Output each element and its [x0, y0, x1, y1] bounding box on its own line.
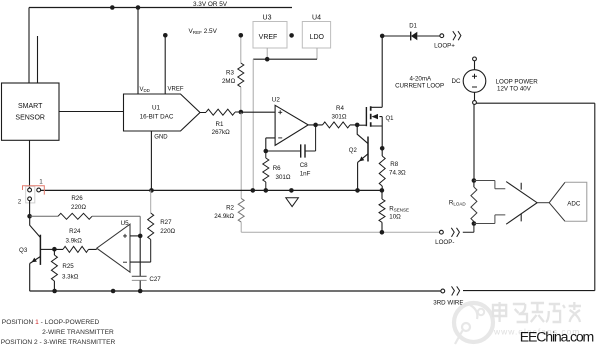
wire ground bus riser to analog rail — [252, 59, 254, 190]
node U5 supply dot on bottom rail — [111, 289, 116, 294]
svg-text:3RD WIRE: 3RD WIRE — [433, 300, 463, 307]
svg-text:POSITION 2 - 3-WIRE TRANSMITTE: POSITION 2 - 3-WIRE TRANSMITTER — [1, 339, 116, 346]
svg-text:POSITION 1 - LOOP-POWERED: POSITION 1 - LOOP-POWERED — [2, 319, 100, 326]
node VREF net dot at U1 — [163, 33, 168, 38]
svg-text:U3: U3 — [263, 15, 272, 22]
watermark logo circle — [454, 303, 493, 344]
svg-text:16-BIT DAC: 16-BIT DAC — [140, 114, 174, 121]
node rail dot Q2 emitter — [355, 188, 360, 193]
svg-text:Q1: Q1 — [386, 116, 395, 122]
wire transmitter bottom rail — [30, 290, 441, 292]
wire loop bottom right — [463, 290, 595, 292]
wire sensor bottom to jumper — [29, 140, 31, 188]
svg-text:301Ω: 301Ω — [332, 113, 347, 120]
transistor Q3 — [30, 216, 41, 237]
svg-text:3.3kΩ: 3.3kΩ — [62, 274, 79, 281]
op-amp U2 — [275, 105, 308, 145]
pin VREF of U1 — [164, 35, 166, 94]
node rail dot U3U4 gnd — [251, 188, 256, 193]
resistor R27 220 — [150, 190, 152, 213]
svg-text:SENSOR: SENSOR — [15, 115, 45, 122]
svg-text:C27: C27 — [149, 276, 161, 283]
resistor R2 24.9k — [240, 112, 242, 198]
node feedback junction — [264, 149, 269, 154]
svg-text:220Ω: 220Ω — [71, 204, 86, 211]
diode D1 — [382, 35, 410, 37]
svg-text:GND: GND — [154, 135, 168, 141]
node VDD junction on top rail — [110, 5, 115, 10]
svg-text:10Ω: 10Ω — [389, 213, 401, 220]
connector LOOP+ break — [440, 34, 444, 38]
node rail dot U1 gnd — [149, 188, 154, 193]
node rail dot R6 — [264, 188, 269, 193]
svg-text:3.3V OR 5V: 3.3V OR 5V — [193, 1, 228, 8]
svg-text:301Ω: 301Ω — [276, 174, 291, 181]
node U2 output — [313, 123, 318, 128]
connector 3RD WIRE break — [441, 289, 445, 293]
svg-text:R24: R24 — [69, 228, 81, 235]
capacitor C8 1nF — [266, 150, 301, 152]
source DC loop power supply — [473, 57, 477, 61]
node gate drive junction — [355, 123, 360, 128]
svg-text:ADC: ADC — [567, 200, 581, 207]
svg-text:R26: R26 — [71, 195, 83, 202]
node Q3 base junction — [52, 247, 57, 252]
node Q1 drain top dot — [380, 34, 385, 39]
svg-text:2: 2 — [18, 199, 22, 206]
svg-text:CURRENT LOOP: CURRENT LOOP — [395, 83, 444, 90]
resistor R4 301 — [308, 124, 357, 126]
svg-text:VREF: VREF — [259, 34, 278, 41]
node U5 plus input junction — [138, 234, 143, 239]
wire U2 minus input feedback — [266, 138, 275, 151]
resistor R8 74.3 — [381, 148, 383, 156]
svg-text:R8: R8 — [390, 161, 398, 168]
resistor R26 220 — [30, 215, 58, 217]
svg-text:Q3: Q3 — [19, 247, 28, 254]
wire U2 plus input — [241, 111, 275, 113]
wire loop top from DC to right edge — [477, 102, 595, 104]
connector LOOP- break — [440, 230, 444, 234]
op-amp U5 — [97, 224, 130, 272]
net 3.3V-or-5V top rail — [29, 7, 292, 9]
svg-text:1nF: 1nF — [300, 171, 311, 178]
node summing junction A — [239, 110, 244, 115]
resistor R3 2M — [240, 35, 242, 63]
resistor R1 267k — [200, 111, 241, 114]
svg-text:1: 1 — [39, 179, 43, 186]
node Rload top junction — [472, 178, 477, 183]
ground symbol — [286, 198, 299, 207]
block U3 VREF — [253, 22, 287, 49]
pin VDD of U1 — [137, 8, 139, 95]
resistor R6 301 — [265, 151, 267, 158]
svg-text:R2: R2 — [226, 204, 234, 211]
svg-text:2-WIRE TRANSMITTER: 2-WIRE TRANSMITTER — [42, 329, 114, 336]
node dot between U3 and U4 — [289, 33, 294, 38]
svg-text:R4: R4 — [336, 105, 344, 112]
node Rload bottom junction — [472, 221, 477, 226]
svg-text:U2: U2 — [272, 97, 281, 104]
wire amp output to ADC — [537, 202, 549, 204]
transistor Q2 NPN — [357, 125, 368, 144]
svg-text:Q2: Q2 — [349, 148, 358, 154]
wire U3 U4 ground bus — [266, 48, 268, 59]
svg-text:D1: D1 — [409, 23, 417, 29]
svg-text:R6: R6 — [273, 165, 281, 172]
wire sensor output to DAC — [59, 111, 124, 113]
wire loop right edge — [594, 103, 596, 290]
wire receiver top input — [474, 181, 505, 189]
block U4 LDO — [302, 22, 330, 49]
svg-text:LOOP-: LOOP- — [435, 239, 454, 246]
node VDD junction 2 on top rail — [136, 5, 141, 10]
resistor RSENSE 10 — [381, 190, 383, 199]
pin GND of U1 — [150, 131, 152, 190]
svg-text:C8: C8 — [300, 162, 308, 169]
node rail dot ground symbol — [289, 188, 294, 193]
wire U5 plus stub — [130, 235, 140, 237]
svg-text:220Ω: 220Ω — [160, 228, 175, 235]
node R26 tap junction — [27, 214, 32, 219]
watermark chinese characters — [493, 302, 581, 322]
svg-text:R25: R25 — [62, 263, 74, 270]
capacitor C27 — [139, 236, 141, 276]
wire jumper pin2 down — [29, 201, 31, 217]
connector jumper position select — [26, 186, 35, 203]
svg-text:12V TO 40V: 12V TO 40V — [497, 86, 532, 93]
svg-text:SMART: SMART — [18, 103, 43, 110]
wire sensor supply to top rail — [28, 8, 30, 84]
svg-text:U5: U5 — [121, 220, 130, 227]
svg-text:LOOP+: LOOP+ — [434, 43, 455, 50]
amplifier difference amp — [506, 182, 537, 225]
svg-text:4-20mA: 4-20mA — [409, 75, 432, 82]
node R25 bottom dot — [52, 289, 57, 294]
node Rsense bottom dot — [380, 230, 385, 235]
transistor Q1 depletion MOSFET — [357, 124, 366, 126]
svg-text:267kΩ: 267kΩ — [212, 129, 230, 136]
svg-text:LOOP POWER: LOOP POWER — [496, 78, 539, 85]
wire receiver bottom input — [474, 215, 505, 224]
svg-text:24.9kΩ: 24.9kΩ — [214, 213, 234, 220]
node C27 bottom rail dot — [138, 289, 143, 294]
resistor R25 3.3k — [53, 249, 55, 255]
wire U5 minus to R27 — [130, 261, 151, 263]
node sense junction — [380, 188, 385, 193]
svg-text:VREF: VREF — [168, 87, 184, 93]
svg-text:LDO: LDO — [310, 34, 325, 41]
svg-text:EEChina.com: EEChina.com — [520, 328, 595, 344]
dac U1 16-BIT DAC — [124, 94, 201, 131]
svg-text:R27: R27 — [160, 219, 172, 226]
resistor R24 3.9k — [54, 248, 96, 250]
resistor RLOAD — [473, 181, 475, 188]
wire R24 to Q3 base — [41, 248, 55, 250]
adc ADC block — [549, 182, 565, 221]
smart sensor block — [2, 83, 60, 140]
svg-text:R3: R3 — [226, 70, 234, 77]
node R3 top dot — [239, 33, 244, 38]
svg-text:2MΩ: 2MΩ — [222, 78, 236, 85]
wire loop minus return rail — [241, 231, 439, 233]
svg-text:U1: U1 — [152, 105, 161, 112]
wire sensor second top stub — [37, 36, 39, 83]
wire DC minus down to Rload — [473, 105, 475, 181]
svg-text:3.9kΩ: 3.9kΩ — [66, 238, 83, 245]
svg-text:R1: R1 — [216, 121, 224, 128]
svg-text:U4: U4 — [312, 15, 321, 22]
node Q1 source junction — [380, 146, 385, 151]
svg-text:DC: DC — [452, 78, 461, 85]
node U3 U4 ground junction — [265, 57, 270, 62]
svg-text:VDD: VDD — [140, 87, 150, 93]
wire analog common rail — [41, 189, 382, 191]
svg-text:74.3Ω: 74.3Ω — [389, 169, 406, 176]
